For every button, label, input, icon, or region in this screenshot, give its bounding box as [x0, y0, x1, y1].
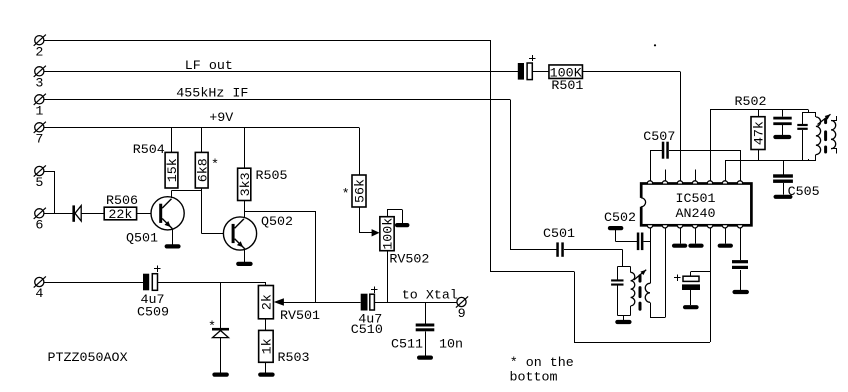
svg-text:2k: 2k — [261, 294, 276, 310]
svg-text:5: 5 — [35, 176, 43, 191]
svg-text:22k: 22k — [108, 208, 132, 223]
svg-text:1: 1 — [35, 105, 43, 120]
svg-text:1k: 1k — [261, 338, 276, 354]
svg-text:2: 2 — [35, 45, 43, 60]
svg-text:Q502: Q502 — [261, 215, 293, 230]
svg-text:to Xtal: to Xtal — [402, 289, 458, 304]
svg-text:RV502: RV502 — [389, 253, 429, 268]
svg-text:6k8: 6k8 — [196, 158, 211, 182]
svg-text:R505: R505 — [256, 169, 288, 184]
svg-text:+9V: +9V — [209, 111, 233, 126]
svg-text:R503: R503 — [278, 351, 310, 366]
svg-text:IC501: IC501 — [675, 192, 715, 207]
svg-text:C510: C510 — [351, 323, 383, 338]
svg-text:LF out: LF out — [185, 59, 233, 74]
svg-text:C511: C511 — [391, 337, 423, 352]
svg-text:R504: R504 — [133, 143, 165, 158]
svg-text:100k: 100k — [382, 218, 397, 250]
svg-text:R501: R501 — [551, 79, 583, 94]
svg-text:C507: C507 — [643, 130, 675, 145]
svg-text:3: 3 — [35, 77, 43, 92]
svg-text:*: * — [211, 158, 219, 173]
svg-text:PTZZ050AOX: PTZZ050AOX — [48, 351, 128, 366]
svg-text:10n: 10n — [439, 338, 463, 353]
svg-text:455kHz IF: 455kHz IF — [176, 86, 248, 101]
svg-text:AN240: AN240 — [675, 207, 715, 222]
svg-text:C501: C501 — [543, 227, 575, 242]
svg-text:C509: C509 — [137, 306, 169, 321]
svg-text:4: 4 — [35, 287, 43, 302]
svg-text:3k3: 3k3 — [239, 172, 254, 196]
svg-text:47k: 47k — [753, 121, 768, 145]
svg-text:Q501: Q501 — [126, 232, 158, 247]
svg-text:* on the: * on the — [510, 356, 574, 371]
svg-text:RV501: RV501 — [280, 309, 320, 324]
svg-text:R502: R502 — [735, 95, 767, 110]
svg-text:C502: C502 — [604, 211, 636, 226]
svg-text:6: 6 — [35, 219, 43, 234]
svg-text:*: * — [208, 320, 216, 335]
svg-text:15k: 15k — [166, 158, 181, 182]
svg-text:C505: C505 — [788, 185, 820, 200]
svg-text:bottom: bottom — [510, 370, 558, 385]
svg-text:7: 7 — [35, 133, 43, 148]
svg-text:9: 9 — [458, 307, 466, 322]
svg-text:*: * — [342, 187, 350, 202]
svg-text:56k: 56k — [354, 179, 369, 203]
